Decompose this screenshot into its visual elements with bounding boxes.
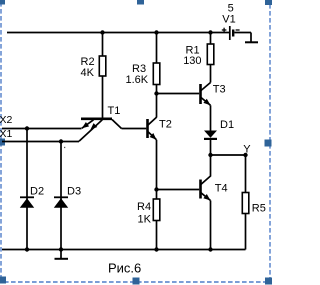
wire R2 column	[102, 33, 104, 119]
transistor T3	[201, 83, 211, 106]
wire T4 base	[157, 189, 200, 191]
svg-text:1.6K: 1.6K	[126, 74, 149, 86]
selection handle right-middle	[265, 140, 272, 147]
selection handle top-middle	[137, 0, 144, 5]
wire T1 collector to T2 base	[122, 128, 147, 130]
svg-text:130: 130	[183, 55, 201, 67]
svg-text:T4: T4	[215, 183, 228, 195]
resistor R3	[153, 63, 160, 85]
selection handle left-middle	[0, 139, 5, 146]
svg-text:V1: V1	[222, 13, 235, 25]
junction top rail / R2	[100, 30, 104, 34]
svg-text:T3: T3	[213, 84, 226, 96]
wire D3 column	[60, 142, 62, 250]
junction top rail / R3	[154, 30, 158, 34]
wire R1 column	[210, 33, 212, 83]
wire T4 collector	[201, 155, 211, 185]
ground (top right)	[245, 33, 258, 43]
junction X2 / D2	[25, 126, 29, 130]
ground (bottom)	[55, 250, 69, 259]
svg-text:D1: D1	[220, 119, 234, 131]
selection frame bottom dashed border	[4, 281, 266, 283]
svg-text:X2: X2	[0, 114, 13, 126]
svg-text:R5: R5	[252, 203, 266, 215]
svg-text:R2: R2	[81, 56, 95, 68]
transistor T2	[148, 117, 157, 140]
junction top rail / R1	[208, 30, 212, 34]
selection handle top-left	[0, 0, 5, 5]
resistor R2	[99, 56, 106, 76]
svg-text:4K: 4K	[81, 67, 95, 79]
wire top power rail	[7, 32, 230, 34]
svg-text:D2: D2	[30, 186, 44, 198]
junction X1 / D3	[59, 139, 63, 143]
junction bottom rail / D3	[59, 247, 63, 251]
transistor T1 (multi-emitter)	[79, 119, 122, 142]
svg-text:Y: Y	[243, 144, 251, 156]
selection handle bottom-middle	[133, 278, 140, 285]
wire T4 emitter to bottom rail	[210, 201, 212, 250]
junction bottom rail / R4	[154, 247, 158, 251]
selection handle bottom-right	[265, 278, 272, 285]
wire X2 input	[2, 128, 82, 130]
stray mark near D3 column	[64, 147, 65, 148]
svg-text:T2: T2	[159, 119, 172, 131]
selection handle bottom-left	[0, 277, 6, 284]
wire bottom rail	[2, 249, 246, 251]
svg-text:R4: R4	[137, 201, 151, 213]
diode D1	[204, 131, 217, 156]
selection frame right dashed border	[269, 4, 271, 278]
diode D3	[54, 197, 68, 208]
wire D1 junction to Y corner	[211, 154, 246, 156]
wire T3 base	[157, 93, 200, 95]
svg-text:X1: X1	[0, 128, 13, 140]
diode D2	[20, 197, 34, 208]
node Y corner junction	[243, 153, 247, 157]
wire D2 column	[26, 129, 28, 250]
junction R3 / T3 base	[154, 91, 158, 95]
battery V1	[222, 26, 251, 40]
svg-text:1K: 1K	[138, 214, 152, 226]
wire T2 emitter / R4 column	[156, 140, 158, 250]
selection handle top-right	[265, 0, 272, 5]
resistor R4	[153, 199, 160, 221]
svg-text:Рис.6: Рис.6	[108, 260, 141, 275]
junction D1 / T4 collector	[208, 153, 212, 157]
wire T3 emitter to D1	[210, 105, 212, 131]
wire X1 input	[2, 141, 79, 143]
svg-text:D3: D3	[67, 186, 81, 198]
junction bottom rail / D2	[25, 247, 29, 251]
junction bottom rail / T4 emitter	[208, 247, 212, 251]
selection frame left dashed border	[0, 2, 2, 278]
resistor R5	[242, 193, 249, 214]
wire R3 column	[156, 33, 158, 118]
svg-text:T1: T1	[108, 105, 121, 117]
transistor T4	[201, 180, 211, 201]
wire R5 column	[245, 155, 247, 250]
resistor R1	[207, 44, 214, 65]
junction R4 / T4 base	[154, 187, 158, 191]
